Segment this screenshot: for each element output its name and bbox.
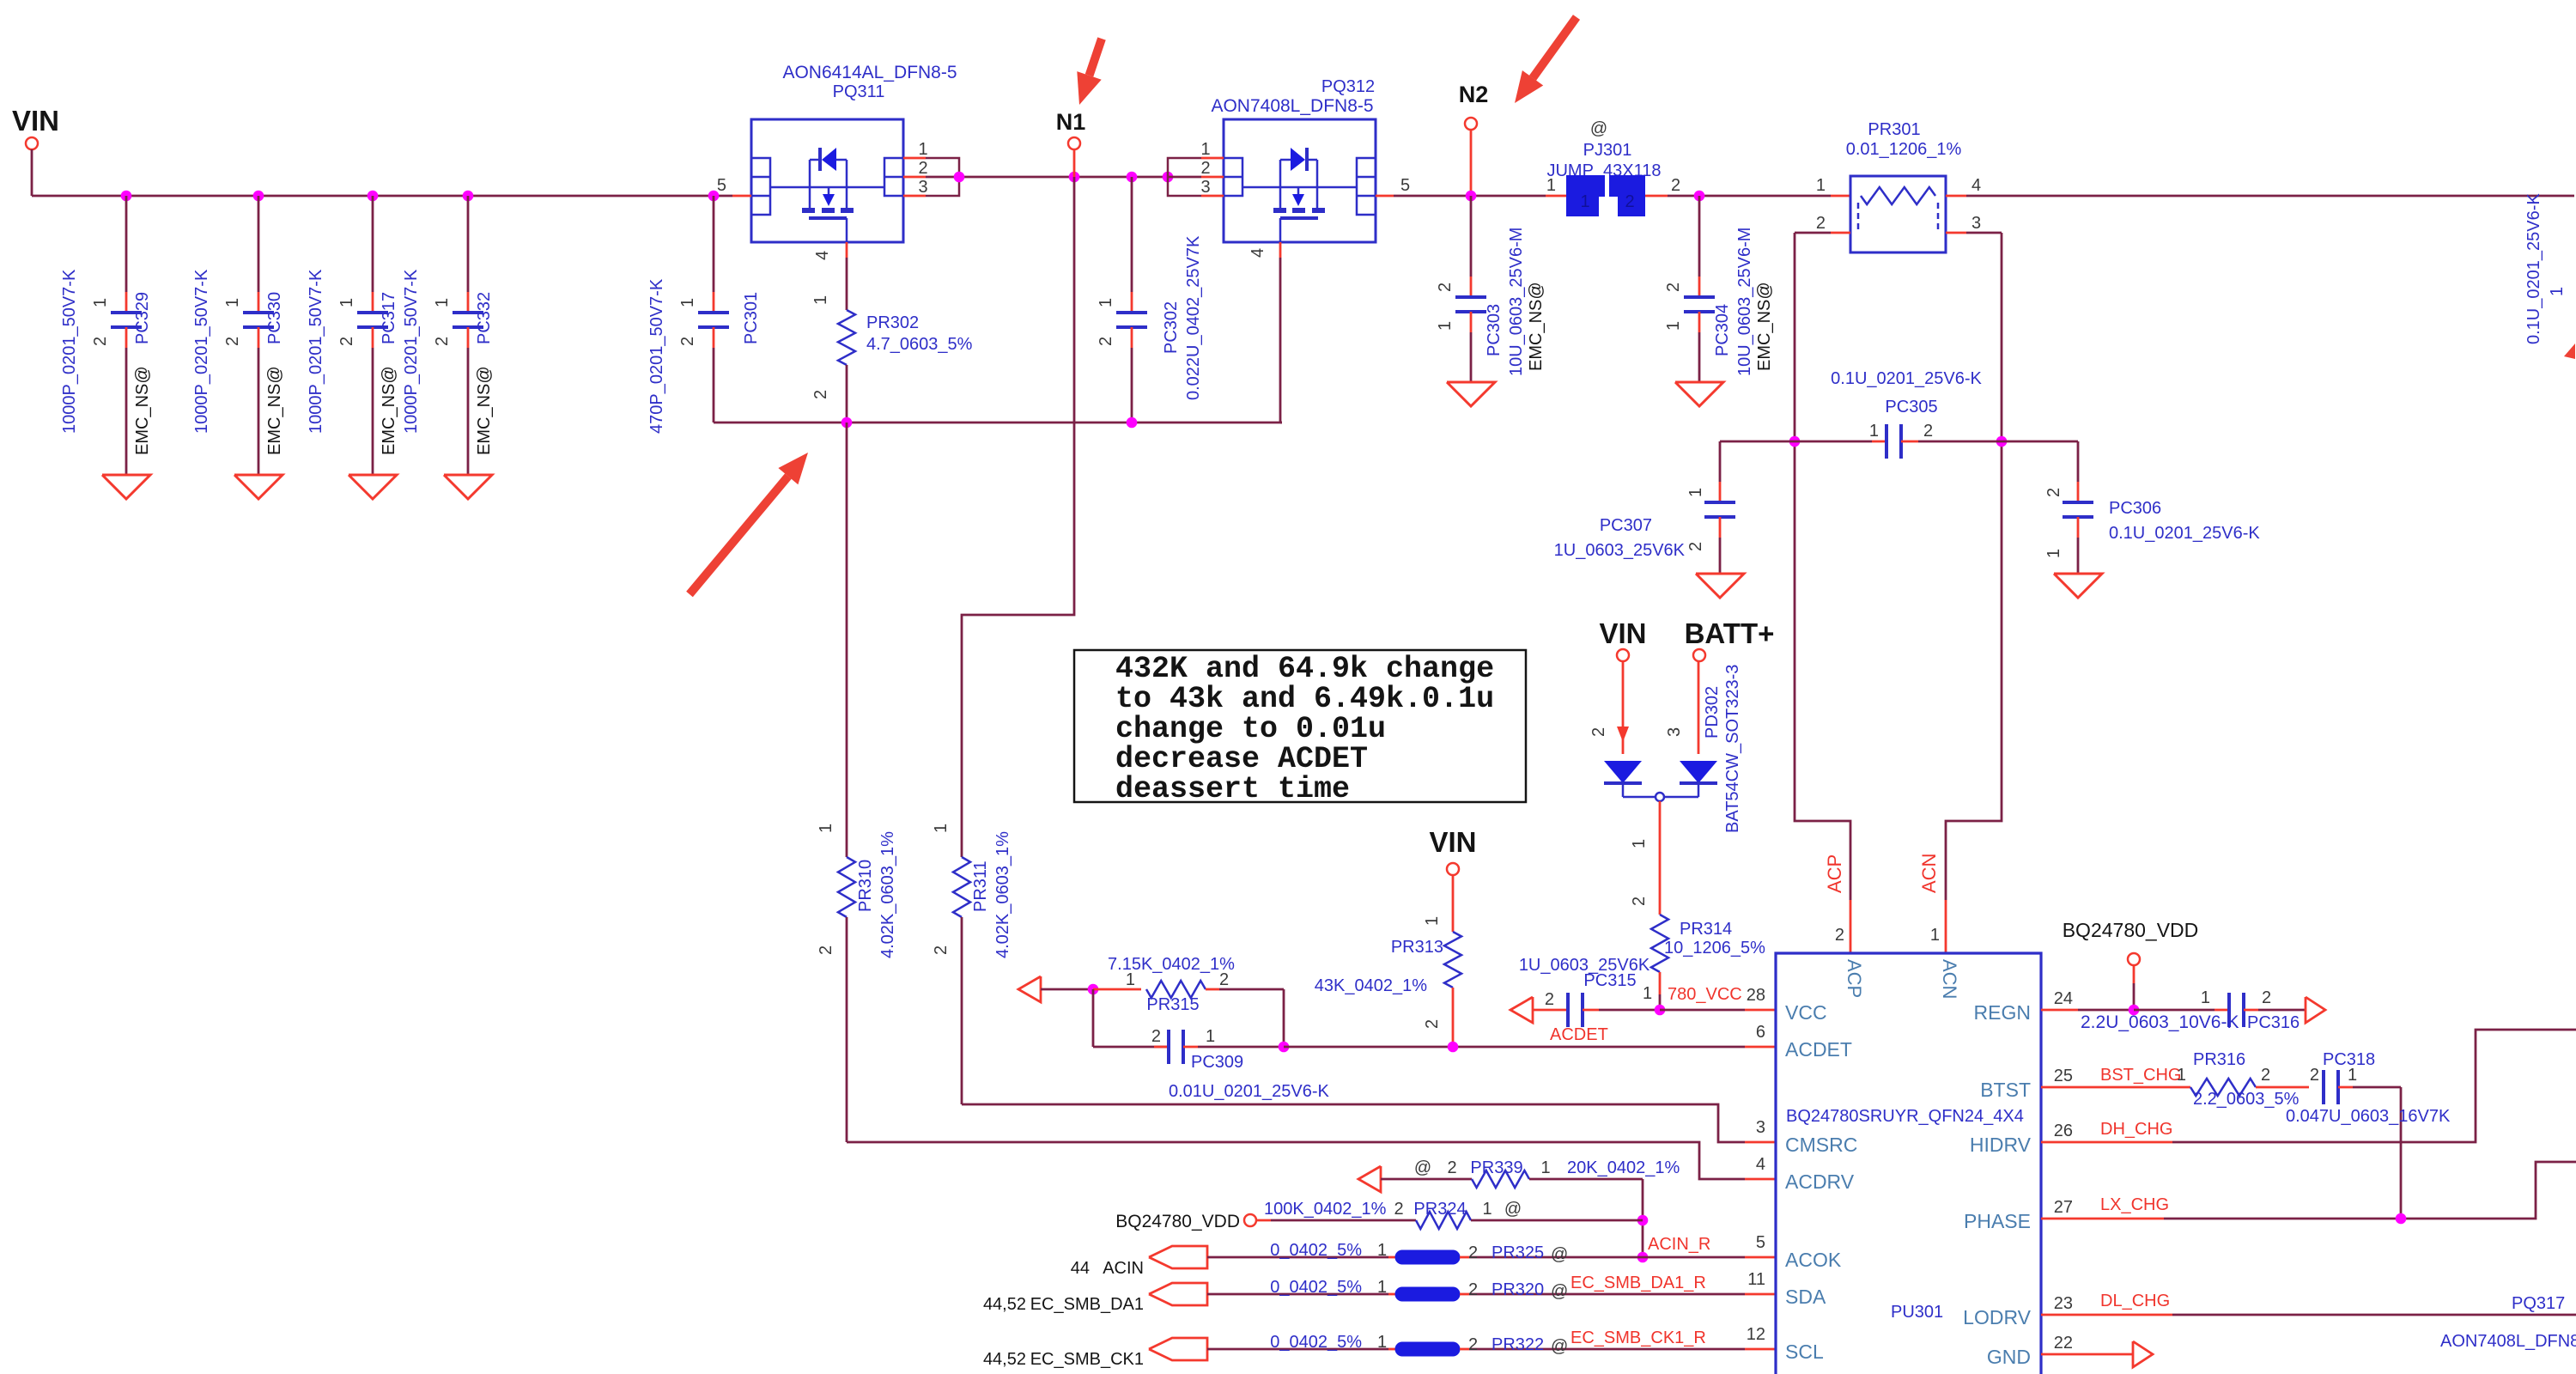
svg-text:1: 1 [1643, 984, 1652, 1003]
svg-text:1: 1 [678, 298, 697, 307]
resistor PR301 0.01 sense [1816, 120, 1981, 252]
svg-text:CMSRC: CMSRC [1785, 1134, 1857, 1156]
pin ACN (pin 1) [1918, 854, 1960, 1000]
svg-text:2: 2 [932, 945, 951, 955]
svg-text:1: 1 [1482, 1200, 1492, 1219]
capacitor PC301 [647, 196, 761, 434]
svg-text:PR320: PR320 [1492, 1280, 1544, 1299]
svg-text:1: 1 [1664, 321, 1683, 331]
svg-text:PR325: PR325 [1492, 1243, 1544, 1262]
svg-text:SDA: SDA [1785, 1286, 1826, 1308]
svg-text:10_1206_5%: 10_1206_5% [1664, 939, 1765, 958]
svg-text:LODRV: LODRV [1963, 1306, 2031, 1328]
net flag (PR315 left) [1018, 976, 1041, 1002]
svg-text:2: 2 [2262, 988, 2271, 1007]
svg-text:REGN: REGN [1974, 1001, 2031, 1024]
node VIN input terminal [12, 105, 59, 196]
node N1 terminal [1056, 109, 1086, 177]
svg-text:PHASE: PHASE [1964, 1210, 2031, 1232]
svg-text:5: 5 [1756, 1233, 1765, 1252]
svg-text:PC306: PC306 [2109, 499, 2161, 518]
note text box [1074, 650, 1526, 806]
capacitor PC303 with ground [1436, 196, 1546, 406]
svg-text:3: 3 [1200, 178, 1210, 197]
svg-text:4: 4 [813, 251, 832, 260]
svg-text:2: 2 [811, 390, 830, 399]
pin ACP (pin 2) [1824, 854, 1865, 999]
resistor PR325 0 ohm (ACIN row) [1071, 1241, 1776, 1278]
svg-text:0_0402_5%: 0_0402_5% [1270, 1333, 1362, 1352]
net flag (PR339 left) [1358, 1166, 1381, 1192]
capacitor PC309 [1093, 989, 1329, 1101]
svg-text:ACIN: ACIN [1103, 1259, 1144, 1278]
svg-text:ACOK: ACOK [1785, 1249, 1842, 1271]
svg-text:1: 1 [1816, 176, 1826, 195]
svg-text:PR311: PR311 [971, 860, 990, 912]
svg-text:N1: N1 [1056, 109, 1086, 135]
node VIN terminal (mid) [1599, 617, 1646, 754]
svg-text:N2: N2 [1459, 82, 1489, 107]
svg-text:DL_CHG: DL_CHG [2100, 1292, 2170, 1310]
resistor PR339 20K [1381, 1158, 1680, 1188]
pin names right side [1963, 989, 2073, 1368]
svg-text:6: 6 [1756, 1023, 1765, 1042]
svg-text:1: 1 [811, 295, 830, 305]
wire ACDRV feed [847, 1142, 1776, 1179]
svg-text:1: 1 [2201, 988, 2210, 1007]
transistor Q PQ311 AON6414AL [717, 63, 959, 260]
svg-text:1: 1 [1206, 1027, 1215, 1046]
svg-text:PC301: PC301 [742, 292, 761, 344]
svg-text:ACN: ACN [1918, 854, 1940, 893]
svg-text:PR324: PR324 [1413, 1200, 1466, 1219]
jumper PJ301 JUMP_43X118 [1546, 119, 1680, 217]
svg-text:2: 2 [1686, 542, 1705, 551]
resistor PR313 43K [1315, 916, 1461, 1047]
svg-text:ACN: ACN [1939, 959, 1960, 999]
svg-text:PC317: PC317 [380, 292, 398, 344]
svg-text:@: @ [1551, 1337, 1568, 1356]
svg-text:2: 2 [1151, 1027, 1161, 1046]
node BQ24780_VDD terminal (left) [1115, 1212, 1271, 1231]
svg-text:1: 1 [1930, 926, 1940, 945]
wire VIN rail [32, 191, 732, 202]
capacitor PC316 REGN [2041, 988, 2306, 1032]
node N2 terminal [1459, 82, 1489, 196]
svg-text:2: 2 [2310, 1066, 2319, 1085]
svg-text:PR310: PR310 [856, 860, 875, 912]
label fragment right edge [2548, 287, 2575, 359]
svg-text:ACDET: ACDET [1550, 1025, 1608, 1044]
svg-text:VIN: VIN [1599, 617, 1646, 649]
svg-text:12: 12 [1747, 1325, 1765, 1344]
svg-text:1: 1 [1097, 298, 1115, 307]
svg-text:1: 1 [1126, 970, 1135, 989]
svg-text:3: 3 [918, 178, 927, 197]
wire DH_CHG (HIDRV) [2041, 1030, 2576, 1142]
wire DL_CHG (LODRV) [2041, 1292, 2576, 1351]
svg-text:1: 1 [433, 298, 452, 307]
resistor PR315 7.15K [1041, 955, 1284, 1047]
svg-text:PJ301: PJ301 [1583, 141, 1632, 160]
svg-text:0.022U_0402_25V7K: 0.022U_0402_25V7K [1184, 235, 1203, 400]
svg-text:1: 1 [2044, 549, 2063, 558]
svg-text:ACDET: ACDET [1785, 1038, 1852, 1061]
svg-text:PC309: PC309 [1191, 1053, 1243, 1072]
svg-text:EMC_NS@: EMC_NS@ [133, 366, 152, 455]
svg-text:2: 2 [2261, 1066, 2270, 1085]
net flag REGN right [2306, 997, 2325, 1023]
svg-text:PC315: PC315 [1583, 971, 1636, 990]
svg-text:2: 2 [1394, 1200, 1403, 1219]
svg-text:change to 0.01u: change to 0.01u [1115, 712, 1386, 746]
svg-text:EC_SMB_DA1_R: EC_SMB_DA1_R [1571, 1274, 1706, 1292]
svg-text:BST_CHG: BST_CHG [2100, 1066, 2181, 1085]
annotation arrow to gate rail [690, 453, 808, 594]
svg-text:2: 2 [1447, 1158, 1456, 1177]
svg-text:VCC: VCC [1785, 1001, 1827, 1024]
svg-text:2: 2 [1468, 1280, 1478, 1299]
annotation arrow to N2 [1515, 17, 1577, 103]
svg-text:1: 1 [2548, 287, 2567, 296]
svg-text:2: 2 [1589, 727, 1608, 737]
svg-text:@: @ [1504, 1200, 1522, 1219]
svg-text:VIN: VIN [12, 105, 59, 137]
svg-text:PU301: PU301 [1891, 1303, 1943, 1322]
wire ACP sense (PR301 pin2 down) [1789, 233, 1850, 953]
svg-text:PC304: PC304 [1713, 304, 1732, 356]
svg-text:1: 1 [1436, 321, 1455, 331]
svg-text:1000P_0201_50V7-K: 1000P_0201_50V7-K [60, 269, 79, 434]
transistor Q PQ312 AON7408L [1168, 77, 1410, 258]
svg-text:PR315: PR315 [1146, 995, 1199, 1014]
svg-text:PR322: PR322 [1492, 1335, 1544, 1354]
svg-text:1: 1 [1200, 140, 1210, 159]
wire PQ312 gate to rail [1280, 258, 1282, 423]
resistor PR311 4.02K [932, 824, 1012, 1104]
resistor PR314 10 [1630, 801, 1765, 1010]
svg-text:28: 28 [1747, 986, 1765, 1005]
svg-text:1: 1 [1377, 1278, 1387, 1297]
svg-text:PQ312: PQ312 [1321, 77, 1375, 96]
svg-text:2: 2 [1200, 159, 1210, 178]
svg-text:0.01U_0201_25V6-K: 0.01U_0201_25V6-K [1169, 1082, 1329, 1101]
svg-text:@: @ [1551, 1282, 1568, 1301]
svg-text:EC_SMB_DA1: EC_SMB_DA1 [1030, 1295, 1144, 1314]
svg-text:25: 25 [2054, 1067, 2073, 1085]
svg-text:EC_SMB_CK1: EC_SMB_CK1 [1030, 1350, 1144, 1369]
svg-text:2: 2 [1545, 990, 1554, 1009]
svg-text:@: @ [1551, 1245, 1568, 1264]
svg-text:1: 1 [1423, 916, 1442, 926]
svg-text:5: 5 [1400, 176, 1410, 195]
svg-text:BQ24780_VDD: BQ24780_VDD [1115, 1212, 1240, 1231]
capacitor PC315 [1519, 956, 1660, 1027]
node VIN terminal (PR313) [1429, 826, 1476, 932]
svg-text:22: 22 [2054, 1334, 2073, 1353]
svg-text:1000P_0201_50V7-K: 1000P_0201_50V7-K [192, 269, 211, 434]
svg-text:26: 26 [2054, 1122, 2073, 1140]
svg-text:10U_0603_25V6-M: 10U_0603_25V6-M [1735, 228, 1754, 376]
svg-text:1U_0603_25V6K: 1U_0603_25V6K [1554, 541, 1686, 560]
svg-text:1: 1 [1546, 176, 1556, 195]
svg-text:1: 1 [1580, 192, 1589, 211]
svg-text:GND: GND [1987, 1346, 2031, 1368]
annotation arrow to N1 [1077, 39, 1102, 105]
svg-text:2.2U_0603_10V6-K: 2.2U_0603_10V6-K [2081, 1012, 2239, 1032]
svg-text:20K_0402_1%: 20K_0402_1% [1567, 1158, 1680, 1177]
svg-text:PC305: PC305 [1885, 398, 1937, 416]
svg-text:2: 2 [433, 337, 452, 346]
svg-text:decrease ACDET: decrease ACDET [1115, 742, 1368, 776]
label 0.1U right edge [2524, 193, 2543, 344]
resistor PR316 2.2 (BTST) [2041, 1050, 2309, 1109]
svg-text:2: 2 [337, 337, 356, 346]
capacitor PC306 with ground [2044, 441, 2260, 598]
svg-text:0_0402_5%: 0_0402_5% [1270, 1241, 1362, 1260]
svg-text:2: 2 [1923, 422, 1933, 441]
capacitor PC329 with ground [60, 196, 152, 499]
svg-text:4: 4 [1756, 1155, 1765, 1174]
svg-text:10U_0603_25V6-M: 10U_0603_25V6-M [1507, 228, 1526, 376]
svg-text:3: 3 [1756, 1118, 1765, 1137]
svg-text:ACIN_R: ACIN_R [1648, 1235, 1710, 1254]
svg-text:1: 1 [1540, 1158, 1550, 1177]
wire gate rail [714, 417, 1282, 429]
svg-text:44: 44 [1071, 1259, 1090, 1278]
svg-text:BTST: BTST [1980, 1079, 2031, 1101]
svg-text:to 43k and 6.49k.0.1u: to 43k and 6.49k.0.1u [1115, 682, 1494, 716]
wire ACN sense (PR301 pin3 down) [1946, 233, 2007, 953]
svg-text:PC307: PC307 [1600, 516, 1652, 535]
svg-text:5: 5 [717, 176, 726, 195]
svg-text:ACP: ACP [1824, 854, 1845, 893]
svg-text:2: 2 [1468, 1243, 1478, 1262]
svg-text:44,52: 44,52 [983, 1350, 1026, 1369]
svg-text:AON7408L_DFN8-5: AON7408L_DFN8-5 [2440, 1332, 2576, 1351]
wire LX_CHG (PHASE) [2041, 1162, 2576, 1224]
svg-text:1: 1 [1686, 488, 1705, 497]
svg-text:2.2_0603_5%: 2.2_0603_5% [2193, 1090, 2300, 1109]
svg-text:23: 23 [2054, 1294, 2073, 1313]
svg-text:2: 2 [1423, 1019, 1442, 1029]
svg-text:0.01_1206_1%: 0.01_1206_1% [1846, 140, 1962, 159]
resistor PR310 4.02K [817, 423, 897, 1142]
svg-text:PR313: PR313 [1391, 938, 1443, 957]
capacitor PC305 [1720, 369, 2078, 459]
svg-text:PR314: PR314 [1680, 920, 1732, 939]
svg-text:4: 4 [1249, 248, 1267, 258]
svg-text:2: 2 [678, 337, 697, 346]
net flag (PC315 left) [1510, 997, 1533, 1023]
resistor PR302 4.7 [811, 258, 973, 423]
wire ACDET net [1284, 1025, 1776, 1052]
resistor PR320 0 ohm (SDA row) [983, 1274, 1776, 1314]
svg-text:PC303: PC303 [1485, 304, 1504, 356]
svg-text:2: 2 [1664, 283, 1683, 292]
svg-text:1: 1 [2177, 1066, 2186, 1085]
svg-text:PR302: PR302 [866, 313, 919, 332]
svg-text:@: @ [1590, 119, 1607, 138]
svg-text:DH_CHG: DH_CHG [2100, 1120, 2172, 1139]
svg-text:4.02K_0603_1%: 4.02K_0603_1% [993, 831, 1012, 958]
svg-text:LX_CHG: LX_CHG [2100, 1195, 2169, 1214]
node BATT+ terminal [1685, 617, 1775, 754]
svg-text:PC330: PC330 [265, 292, 284, 344]
svg-text:EMC_NS@: EMC_NS@ [1527, 282, 1546, 371]
svg-text:0.1U_0201_25V6-K: 0.1U_0201_25V6-K [2524, 193, 2543, 344]
svg-text:0.047U_0603_16V7K: 0.047U_0603_16V7K [2286, 1107, 2451, 1126]
svg-text:1: 1 [1377, 1333, 1387, 1352]
svg-text:PQ317: PQ317 [2512, 1294, 2565, 1313]
svg-text:4: 4 [1971, 176, 1981, 195]
svg-text:0_0402_5%: 0_0402_5% [1270, 1278, 1362, 1297]
svg-text:BAT54CW_SOT323-3: BAT54CW_SOT323-3 [1723, 665, 1742, 833]
svg-text:1: 1 [1630, 839, 1649, 848]
svg-text:3: 3 [1665, 727, 1684, 737]
wire CMSRC feed [962, 1104, 1776, 1142]
svg-text:1: 1 [1377, 1241, 1387, 1260]
svg-text:2: 2 [817, 945, 835, 955]
capacitor PC304 with ground [1664, 196, 1774, 406]
capacitor PC318 [2286, 1050, 2451, 1219]
svg-text:PC332: PC332 [475, 292, 494, 344]
svg-text:PC316: PC316 [2247, 1013, 2300, 1032]
diode PD302 BAT54CW dual [1589, 665, 1742, 833]
wire PQ312 to PJ301 [1394, 191, 1566, 202]
svg-text:2: 2 [91, 337, 110, 346]
capacitor PC317 with ground [307, 196, 398, 499]
svg-text:1: 1 [91, 298, 110, 307]
wire rail right of PR301 [1966, 195, 2574, 198]
svg-text:@: @ [1414, 1158, 1431, 1177]
svg-text:1: 1 [223, 298, 242, 307]
svg-text:PR339: PR339 [1470, 1158, 1522, 1177]
resistor PR322 0 ohm (SCL row) [983, 1328, 1776, 1369]
svg-text:2: 2 [1671, 176, 1680, 195]
svg-text:43K_0402_1%: 43K_0402_1% [1315, 976, 1427, 995]
svg-text:VIN: VIN [1429, 826, 1476, 858]
svg-text:BQ24780SRUYR_QFN24_4X4: BQ24780SRUYR_QFN24_4X4 [1786, 1107, 2024, 1126]
svg-text:1: 1 [918, 140, 927, 159]
svg-text:2: 2 [1219, 970, 1229, 989]
svg-text:1000P_0201_50V7-K: 1000P_0201_50V7-K [402, 269, 421, 434]
svg-text:PR301: PR301 [1868, 120, 1920, 139]
capacitor PC332 with ground [402, 196, 494, 499]
wire node N1 net (between PQ311 and PQ312) [954, 172, 1174, 183]
svg-text:PC318: PC318 [2323, 1050, 2375, 1069]
svg-text:470P_0201_50V7-K: 470P_0201_50V7-K [647, 278, 666, 434]
svg-text:EMC_NS@: EMC_NS@ [475, 366, 494, 455]
svg-text:2: 2 [1630, 897, 1649, 906]
net flag GND right [2041, 1341, 2153, 1367]
wire ACIN_R node [1637, 1179, 1711, 1262]
svg-text:2: 2 [2044, 488, 2063, 497]
capacitor PC307 with ground [1554, 441, 1744, 598]
svg-text:2: 2 [1468, 1335, 1478, 1354]
svg-text:PQ311: PQ311 [833, 82, 885, 101]
svg-text:1: 1 [817, 824, 835, 833]
svg-text:EMC_NS@: EMC_NS@ [265, 366, 284, 455]
svg-text:1: 1 [1869, 422, 1879, 441]
op-amp U PU301 BQ24780 body [1776, 953, 2041, 1374]
svg-text:11: 11 [1747, 1270, 1765, 1289]
wire 780_VCC to pin28 [1655, 985, 1776, 1015]
svg-text:2: 2 [1816, 214, 1826, 233]
svg-text:4.02K_0603_1%: 4.02K_0603_1% [878, 831, 897, 958]
svg-text:100K_0402_1%: 100K_0402_1% [1264, 1200, 1387, 1219]
svg-text:ACDRV: ACDRV [1785, 1170, 1855, 1193]
svg-text:27: 27 [2054, 1198, 2073, 1217]
wire PJ301 to PR301 [1668, 191, 1850, 202]
svg-text:2: 2 [223, 337, 242, 346]
svg-text:780_VCC: 780_VCC [1668, 985, 1742, 1004]
svg-text:0.1U_0201_25V6-K: 0.1U_0201_25V6-K [1831, 369, 1982, 388]
node BQ24780_VDD terminal (right) [2063, 919, 2199, 1010]
svg-text:AON6414AL_DFN8-5: AON6414AL_DFN8-5 [782, 63, 957, 82]
svg-text:2: 2 [1625, 192, 1634, 211]
svg-text:PC302: PC302 [1162, 301, 1181, 354]
svg-text:2: 2 [1436, 283, 1455, 292]
svg-text:2: 2 [1097, 337, 1115, 346]
svg-text:1000P_0201_50V7-K: 1000P_0201_50V7-K [307, 269, 325, 434]
wire N1 branch down to PR311 [962, 177, 1074, 857]
svg-text:PC329: PC329 [133, 292, 152, 344]
svg-text:AON7408L_DFN8-5: AON7408L_DFN8-5 [1211, 96, 1373, 116]
svg-text:0.1U_0201_25V6-K: 0.1U_0201_25V6-K [2109, 524, 2260, 543]
svg-text:EC_SMB_CK1_R: EC_SMB_CK1_R [1571, 1328, 1706, 1347]
capacitor PC330 with ground [192, 196, 284, 499]
svg-text:BATT+: BATT+ [1685, 617, 1775, 649]
svg-text:432K and 64.9k change: 432K and 64.9k change [1115, 652, 1494, 686]
svg-text:HIDRV: HIDRV [1970, 1134, 2032, 1156]
resistor PR324 100K [1264, 1200, 1643, 1229]
svg-text:4.7_0603_5%: 4.7_0603_5% [866, 335, 973, 354]
svg-text:SCL: SCL [1785, 1341, 1824, 1363]
capacitor PC302 [1097, 177, 1203, 423]
svg-text:44,52: 44,52 [983, 1295, 1026, 1314]
svg-text:2: 2 [1835, 926, 1844, 945]
svg-text:1: 1 [337, 298, 356, 307]
svg-text:3: 3 [1971, 214, 1981, 233]
pin names left side [1747, 986, 1858, 1363]
svg-text:PD302: PD302 [1703, 686, 1722, 739]
svg-text:24: 24 [2054, 989, 2073, 1008]
svg-text:ACP: ACP [1844, 959, 1865, 998]
svg-text:BQ24780_VDD: BQ24780_VDD [2063, 919, 2199, 941]
svg-text:deassert time: deassert time [1115, 772, 1350, 806]
svg-text:PR316: PR316 [2193, 1050, 2245, 1069]
svg-text:EMC_NS@: EMC_NS@ [380, 366, 398, 455]
svg-text:2: 2 [918, 159, 927, 178]
svg-text:EMC_NS@: EMC_NS@ [1755, 282, 1774, 371]
svg-text:1: 1 [932, 824, 951, 833]
